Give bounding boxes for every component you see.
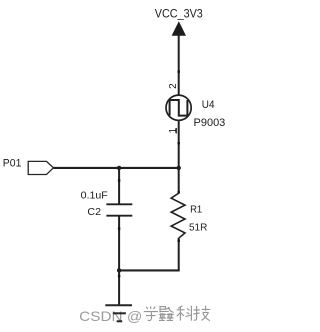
- svg-text:2: 2: [168, 83, 179, 89]
- watermark glyph xue: [144, 306, 158, 320]
- ground: [105, 305, 132, 321]
- component U4 circle: [166, 95, 191, 120]
- pin number 2: [168, 83, 179, 89]
- watermark glyph ke: [177, 306, 192, 321]
- wire junction A to C2: [118, 168, 120, 204]
- wire U4 pin 1 to junction B: [178, 120, 180, 168]
- wire bottom horizontal: [118, 269, 180, 271]
- pin end tick ground stem: [118, 275, 120, 277]
- junction dot B: [177, 166, 181, 170]
- wire R1 to bottom corner: [178, 238, 180, 270]
- port P01: [28, 161, 53, 174]
- junction dot C: [117, 268, 121, 272]
- pin end tick U4 pin 2: [178, 70, 180, 72]
- junction dot A: [117, 166, 121, 170]
- watermark glyph min-chong: [159, 307, 174, 321]
- U4 fuse element square wave: [170, 100, 188, 116]
- svg-text:P01: P01: [3, 157, 22, 169]
- pin end tick C2 bottom: [118, 227, 120, 229]
- wire junction C to ground: [118, 270, 120, 305]
- svg-text:CSDN @: CSDN @: [79, 308, 142, 324]
- pin number 1: [168, 128, 179, 134]
- wire P01 to vertical axis: [53, 167, 179, 169]
- svg-text:51R: 51R: [189, 221, 208, 233]
- svg-text:C2: C2: [87, 206, 101, 218]
- pin end tick U4 pin 1: [178, 142, 180, 144]
- svg-text:VCC_3V3: VCC_3V3: [155, 7, 203, 21]
- wire VCC to U4 pin 2: [178, 35, 180, 95]
- svg-text:1: 1: [168, 128, 179, 134]
- pin end tick C2 top: [118, 179, 120, 181]
- wire junction B to R1: [178, 168, 180, 194]
- pin end tick R1 top: [178, 191, 180, 193]
- svg-text:U4: U4: [202, 99, 215, 111]
- svg-text:R1: R1: [190, 203, 202, 215]
- wire C2 to bottom junction C: [118, 216, 120, 271]
- power symbol VCC_3V3 arrow: [172, 21, 186, 36]
- watermark glyph ji: [193, 306, 210, 321]
- svg-text:P9003: P9003: [194, 117, 226, 129]
- svg-text:0.1uF: 0.1uF: [81, 190, 108, 202]
- resistor R1: [171, 193, 185, 238]
- pin end tick R1 bottom: [178, 240, 180, 242]
- capacitor C2: [106, 204, 132, 215]
